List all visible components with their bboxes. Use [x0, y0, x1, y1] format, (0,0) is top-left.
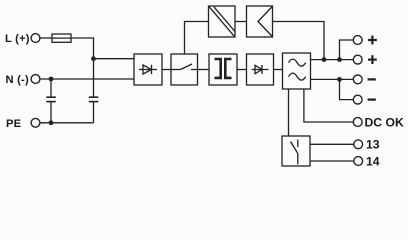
- wire relay to terminal 13: [310, 143, 354, 145]
- wire output diode to output stage: [274, 69, 283, 71]
- terminal -1: [353, 75, 362, 84]
- junction plus branch: [337, 57, 342, 62]
- junction L-feed: [91, 56, 96, 61]
- wire N line to rectifier lower input: [40, 78, 134, 80]
- svg-text:N (-): N (-): [6, 74, 29, 86]
- output rectifier box U3: [247, 54, 274, 85]
- wire switch box to transformer: [198, 69, 210, 71]
- wire C2 to PE line: [93, 102, 95, 123]
- svg-text:L (+): L (+): [5, 33, 30, 45]
- svg-text:DC OK: DC OK: [365, 115, 404, 129]
- terminal DC OK: [353, 118, 362, 127]
- wire N junction down to capacitor C1: [50, 79, 52, 97]
- junction N to C1: [49, 77, 54, 82]
- transformer T1 box: [209, 54, 237, 85]
- feedback box B (driver): [247, 6, 273, 37]
- terminal PE: [31, 118, 40, 127]
- feedback box A (isolator): [209, 6, 236, 37]
- switching stage box U2: [171, 54, 198, 85]
- diode D1: [139, 65, 157, 74]
- label plus 1: [368, 36, 377, 45]
- terminal +1: [353, 36, 362, 45]
- terminal 13: [354, 140, 363, 149]
- wire branch to terminal -2: [340, 79, 354, 99]
- wire PE line: [40, 122, 94, 124]
- terminal N(-): [31, 75, 40, 84]
- wire between feedback boxes: [235, 21, 247, 23]
- wire relay to terminal 14: [310, 160, 354, 162]
- wire L terminal to fuse: [40, 37, 52, 39]
- terminal +2: [353, 55, 362, 64]
- wire branch to terminal +1: [340, 40, 354, 60]
- driver symbol: [258, 7, 272, 37]
- transformer core windings: [215, 59, 232, 78]
- switch contact S1: [171, 64, 198, 70]
- label plus 2: [368, 55, 377, 64]
- fuse F1: [52, 34, 71, 42]
- input rectifier box U1: [134, 54, 162, 85]
- diode D2: [252, 65, 269, 74]
- svg-text:14: 14: [366, 154, 380, 168]
- sine symbol upper: [289, 59, 306, 66]
- label minus 1: [368, 78, 376, 80]
- label minus 2: [368, 98, 376, 100]
- wire rectifier to switch box: [162, 69, 171, 71]
- wire transformer to output diode: [237, 69, 247, 71]
- wire C1 to PE line: [50, 102, 52, 123]
- wire feedback to switch box top: [185, 22, 209, 55]
- wire junction to rectifier upper input: [94, 58, 135, 60]
- terminal L(+): [31, 34, 40, 43]
- isolator diagonal stripe: [209, 7, 235, 37]
- svg-text:13: 13: [366, 138, 380, 152]
- capacitor C2: [89, 97, 99, 101]
- wire junction down to capacitor C2: [93, 59, 95, 97]
- relay contact: [291, 140, 298, 165]
- wire minus rail: [311, 78, 354, 80]
- sine symbol lower: [289, 73, 306, 80]
- capacitor C1: [46, 97, 56, 101]
- junction feedback on plus rail: [322, 57, 327, 62]
- wire fuse to L-feed corner down to junction: [71, 38, 94, 59]
- terminal -2: [353, 95, 362, 104]
- terminal 14: [354, 157, 363, 166]
- wire plus rail: [311, 59, 354, 61]
- relay box K1: [282, 136, 310, 166]
- output stage box U4: [283, 53, 311, 89]
- junction PE to C1: [49, 120, 54, 125]
- junction minus branch: [337, 77, 342, 82]
- svg-text:PE: PE: [6, 118, 22, 130]
- wire feedback path: [273, 22, 325, 60]
- wire output stage to relay: [288, 89, 290, 136]
- wire output stage to DC OK terminal: [304, 89, 353, 122]
